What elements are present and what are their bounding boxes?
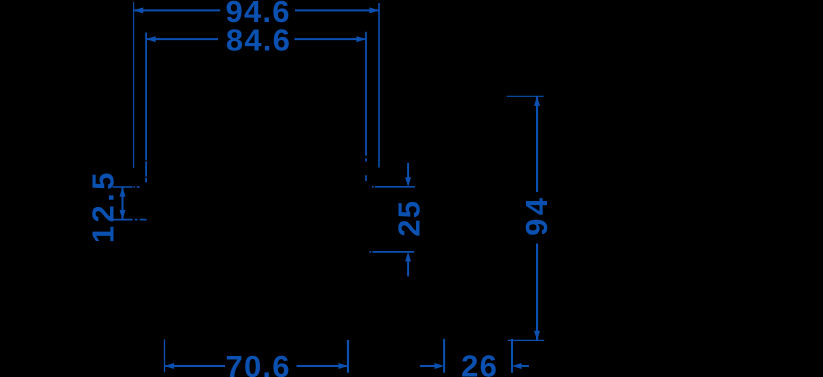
dim 25 upper arrowhead pointing down [405, 177, 411, 187]
extension line bottom of dim 25 [369, 251, 371, 253]
arrowhead down of dim 12.5 [120, 210, 126, 220]
extension line top of dim 12.5 [113, 186, 133, 188]
dimension line 84.6 left segment [146, 38, 218, 40]
dim 26 right arrowhead pointing left [512, 363, 522, 369]
svg-text:12.5: 12.5 [85, 169, 120, 243]
svg-text:25: 25 [392, 200, 427, 237]
dimension line 94.6 right segment [295, 9, 379, 11]
extension line left of dim 84.6 [145, 33, 147, 161]
extension line right of dim 70.6 [347, 340, 349, 373]
svg-text:70.6: 70.6 [226, 349, 291, 377]
extension line bottom of dim 94 [508, 339, 545, 341]
dimension line 84.6 right segment [295, 38, 367, 40]
arrowhead left of dim 70.6 [165, 363, 175, 369]
arrowhead down of dim 94 [534, 331, 540, 341]
extension line left of dim 26 [443, 339, 445, 373]
extension line right of dim 84.6 [365, 32, 367, 156]
dimension line 94 upper segment [536, 96, 538, 192]
dimension line 94.6 left segment [134, 9, 221, 11]
svg-text:94: 94 [519, 195, 554, 236]
dim 25 lower arrowhead pointing up [405, 252, 411, 262]
arrowhead right of dim 84.6 [356, 36, 366, 42]
arrowhead up of dim 12.5 [120, 187, 126, 197]
extension line right of dim 26 [511, 339, 513, 373]
extension line left of dim 70.6 [164, 339, 166, 372]
arrowhead right of dim 70.6 [338, 363, 348, 369]
arrowhead left of dim 84.6 [146, 36, 156, 42]
arrowhead up of dim 94 [534, 96, 540, 106]
dim 25 lower arrow shaft [407, 261, 409, 276]
dimension line 70.6 left segment [165, 365, 226, 367]
arrowhead right of dim 94.6 [369, 7, 379, 13]
dimension line 70.6 right segment [297, 365, 349, 367]
extension line top of dim 25 [372, 186, 374, 188]
extension line left of dim 94.6 [133, 2, 135, 168]
extension line top of dim 94 [507, 95, 544, 97]
dim 25 upper arrow shaft [407, 163, 409, 178]
svg-text:26: 26 [461, 349, 498, 377]
dim 26 left arrow shaft [420, 365, 435, 367]
dimension line 12.5 vertical [122, 187, 124, 220]
dimension line 94 lower segment [536, 244, 538, 341]
dim 26 right arrow shaft [522, 365, 529, 367]
dim 26 left arrowhead pointing right [435, 363, 445, 369]
svg-text:84.6: 84.6 [226, 22, 291, 57]
extension line right of dim 94.6 [378, 3, 380, 168]
extension line bottom of dim 12.5 [113, 219, 133, 221]
arrowhead left of dim 94.6 [134, 7, 144, 13]
